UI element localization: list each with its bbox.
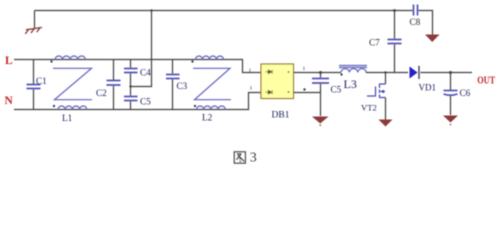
- capacitor C5 (left): [130, 87, 132, 96]
- svg-text:L3: L3: [344, 77, 357, 91]
- junction C4/C5 midpoint: [129, 85, 131, 87]
- inductor L1 coupling Z: [53, 68, 92, 99]
- capacitor C1: [33, 60, 35, 85]
- diode VD1: [410, 67, 418, 79]
- svg-text:L2: L2: [202, 113, 213, 123]
- inductor L2 coupling Z: [193, 68, 231, 99]
- ground under C5: [312, 117, 329, 126]
- svg-text:3: 3: [250, 151, 257, 166]
- svg-text:1: 1: [303, 66, 306, 72]
- svg-text:C7: C7: [369, 38, 380, 48]
- junction dot at DB1 negative output: [303, 88, 305, 90]
- svg-text:C2: C2: [96, 88, 107, 98]
- svg-text:C5: C5: [140, 97, 151, 107]
- capacitor C7: [394, 11, 396, 39]
- transistor VT2 (MOSFET): [385, 73, 387, 85]
- svg-text:C6: C6: [460, 88, 471, 98]
- svg-text:C3: C3: [177, 81, 188, 91]
- svg-text:C5: C5: [331, 85, 342, 95]
- DB1 inner diode glyph bottom: [266, 90, 273, 94]
- svg-text:DB1: DB1: [272, 111, 290, 121]
- wire N rail: [14, 93, 261, 110]
- caption 图 3 (drawn as strokes for font safety): [234, 152, 245, 163]
- capacitor C8: [395, 10, 413, 12]
- inductor L2 top winding: [196, 56, 224, 60]
- svg-text:L1: L1: [62, 113, 73, 123]
- wire L rail: [14, 60, 261, 73]
- wire earth drop left: [34, 11, 36, 29]
- inductor L1 bottom winding: [58, 106, 87, 110]
- svg-text:1: 1: [249, 68, 252, 74]
- wire DB1 bottom output to ground line: [294, 92, 321, 94]
- inductor L2 bottom winding: [197, 106, 226, 110]
- wire VD1 to OUT: [421, 72, 473, 74]
- wire DB1 top output to L3: [294, 72, 342, 74]
- svg-text:N: N: [5, 95, 14, 107]
- junction node on earth rail at C7/C8: [393, 9, 396, 12]
- svg-text:C1: C1: [36, 76, 47, 86]
- svg-text:C8: C8: [410, 17, 421, 27]
- ground under VT2: [379, 120, 393, 127]
- junction node on DC bus at C5: [319, 71, 322, 74]
- ground under C6: [443, 116, 458, 126]
- ground right of C8: [425, 35, 440, 43]
- capacitor C4: [130, 60, 132, 68]
- junction on top rail at x=151: [150, 9, 152, 11]
- capacitor C3: [172, 60, 174, 74]
- inductor L1 top winding: [55, 56, 85, 60]
- wire L3 to diode: [366, 72, 408, 74]
- bridge rectifier DB1: [261, 64, 294, 99]
- capacitor C5 (right, DC bus): [320, 73, 322, 78]
- svg-text:VT2: VT2: [361, 103, 377, 113]
- svg-text:1: 1: [250, 86, 253, 92]
- inductor L3: [339, 66, 367, 68]
- svg-text:VD1: VD1: [419, 83, 437, 93]
- svg-text:C4: C4: [140, 68, 151, 78]
- svg-text:L: L: [5, 55, 13, 67]
- wire earth mid vertical (to C4/C5 midpoint): [131, 11, 152, 87]
- DB1 right pin dots: [288, 71, 290, 73]
- junction node at C6 / OUT: [449, 71, 452, 74]
- junction node at VT2 drain: [384, 71, 386, 73]
- capacitor C6: [450, 73, 452, 91]
- capacitor C2: [113, 60, 115, 81]
- DB1 inner diode glyph top: [266, 70, 273, 74]
- wire top earth rail: [35, 10, 395, 12]
- svg-text:OUT: OUT: [477, 76, 495, 87]
- earth (chassis) symbol: [25, 27, 42, 33]
